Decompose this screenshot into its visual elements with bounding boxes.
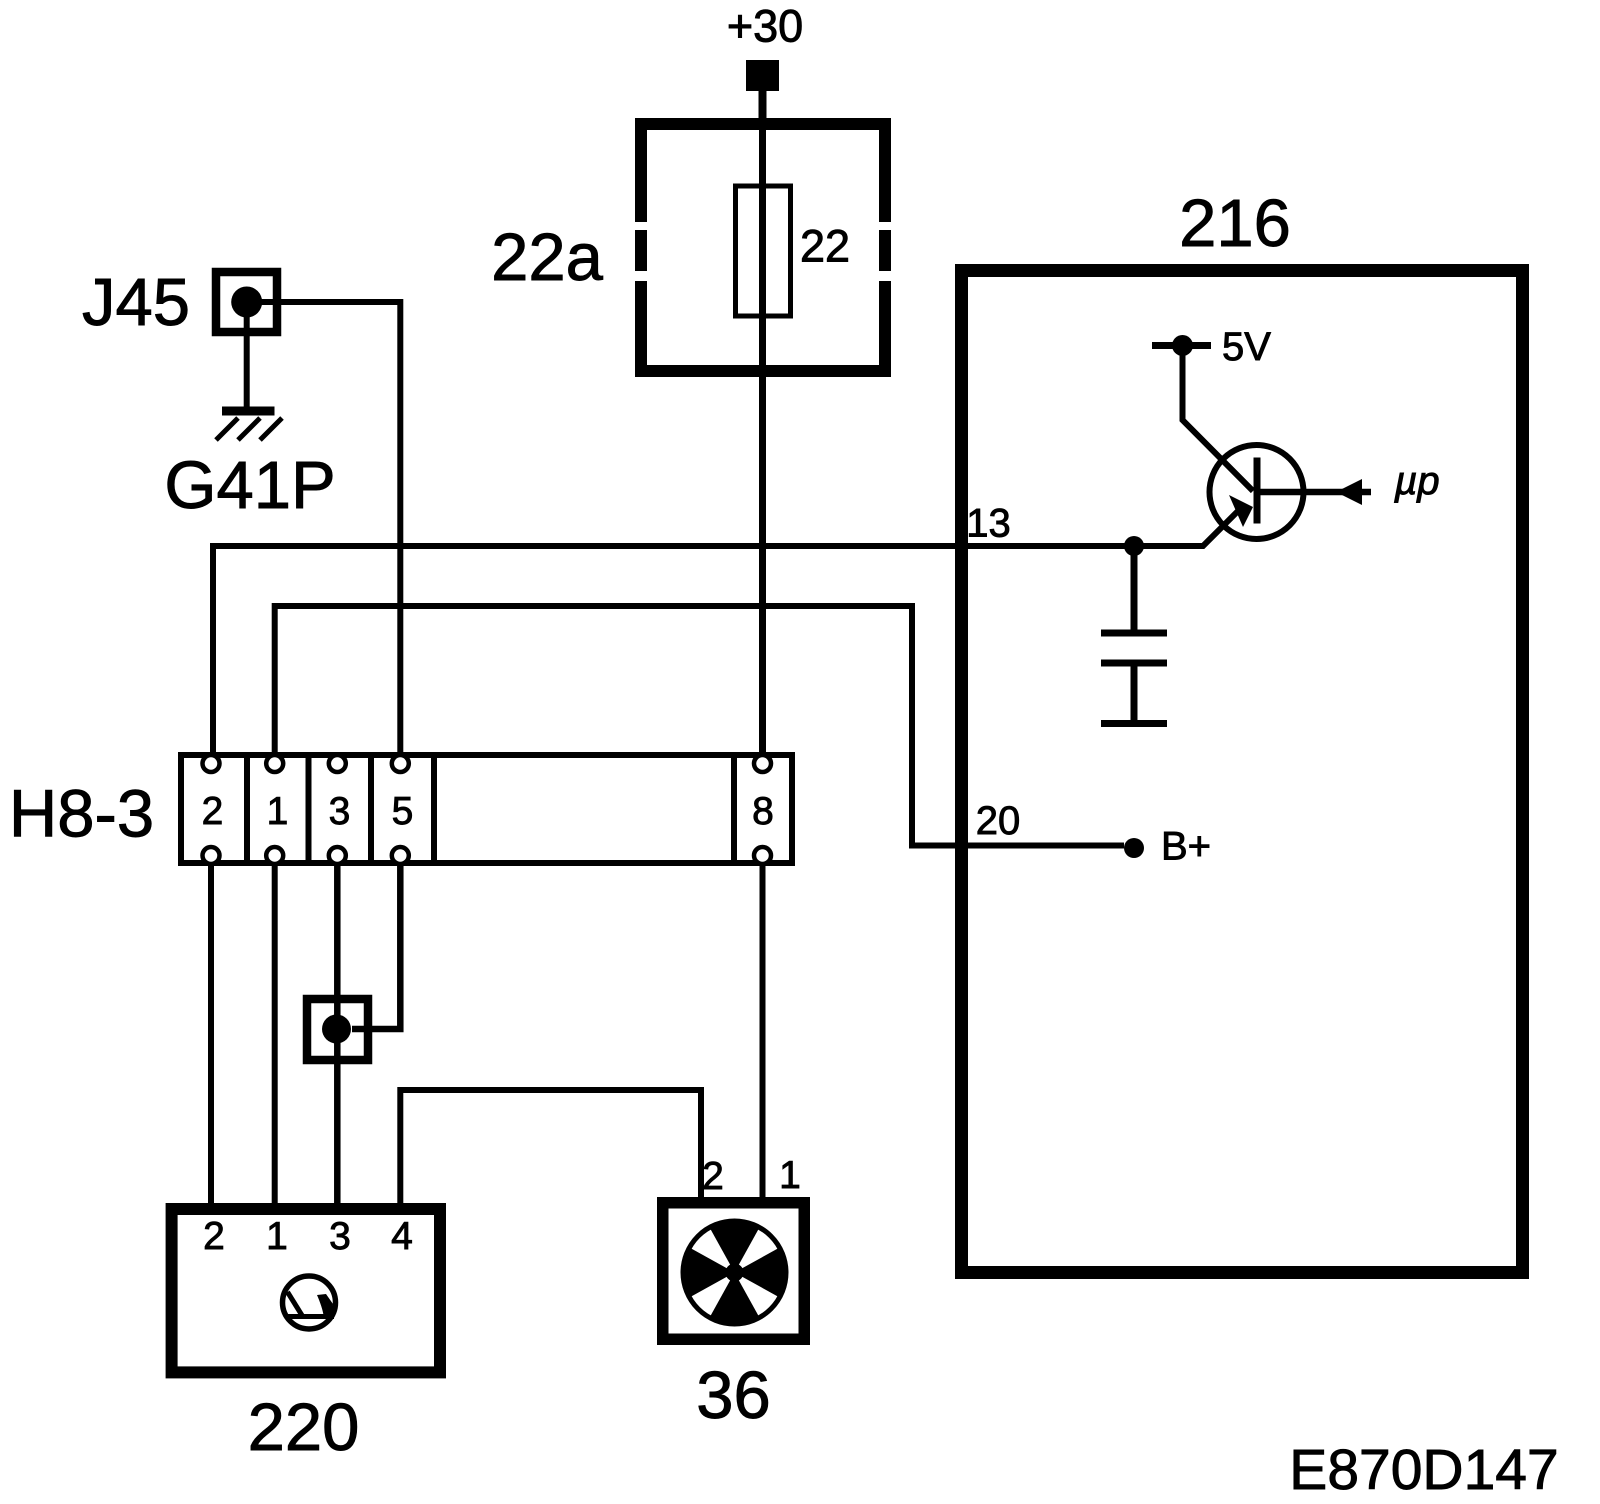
node 5V terminal (1152, 335, 1211, 356)
connector J45 contact dot (231, 287, 262, 318)
arrowhead toward transistor (1336, 479, 1362, 505)
fuse 22 element (736, 186, 791, 316)
svg-text:36: 36 (696, 1358, 771, 1433)
svg-text:1: 1 (266, 1215, 288, 1258)
svg-text:22a: 22a (491, 220, 604, 295)
connector J45 square (216, 272, 277, 332)
svg-text:22: 22 (800, 221, 850, 272)
splice connector square (307, 999, 368, 1060)
wire pin 13 to transistor emitter (213, 507, 1242, 754)
wire H8-3 pin 8 to fan 36 pin 1 (760, 866, 766, 1197)
svg-text:E870D147: E870D147 (1289, 1438, 1558, 1502)
wire H8-3 pin 3 to 220 pin 3 through splice (334, 866, 341, 1203)
wire H8-3 pin 5 to splice (352, 866, 400, 1029)
svg-text:8: 8 (752, 790, 774, 833)
svg-text:3: 3 (329, 790, 351, 833)
wire H8-3 pin 1 to 220 pin 1 (272, 866, 278, 1203)
svg-text:µp: µp (1393, 459, 1439, 503)
svg-text:J45: J45 (82, 265, 190, 340)
transistor emitter arrowhead (1229, 495, 1253, 527)
svg-text:5V: 5V (1222, 325, 1271, 369)
svg-text:20: 20 (976, 799, 1021, 843)
fuse holder 22a box (dashed border) (635, 118, 891, 377)
transistor output wire to microprocessor (1257, 489, 1371, 496)
fan symbol in 36 (683, 1221, 786, 1324)
svg-text:B+: B+ (1161, 825, 1211, 869)
svg-text:4: 4 (391, 1215, 413, 1258)
junction node on pin 13 wire (1124, 536, 1144, 556)
svg-text:3: 3 (329, 1215, 351, 1258)
wire H8-3 pin 1 to pin 20 / B+ (275, 606, 1124, 846)
splice contact dot (322, 1015, 351, 1044)
connector H8-3 strip (181, 752, 792, 866)
wire 5V to transistor (1183, 346, 1254, 492)
ground G41P symbol (216, 411, 282, 440)
svg-text:G41P: G41P (164, 448, 335, 523)
svg-text:5: 5 (392, 790, 414, 833)
connector H8-3 pin circles (203, 755, 772, 864)
wire H8-3 pin 2 to 220 pin 2 (208, 866, 214, 1203)
svg-text:+30: +30 (727, 1, 803, 52)
svg-text:H8-3: H8-3 (9, 777, 154, 852)
wire through fuse down to H8-3 pin 8 (759, 124, 766, 756)
wire 220 pin 4 to fan 36 pin 2 (400, 1090, 701, 1203)
wire +30 terminal to fuse box (759, 88, 767, 124)
transistor in 216 (1210, 445, 1304, 539)
wire J45 to ground (244, 302, 250, 407)
svg-text:1: 1 (779, 1154, 801, 1197)
svg-text:2: 2 (702, 1155, 724, 1198)
svg-text:216: 216 (1179, 186, 1291, 261)
svg-text:220: 220 (248, 1390, 360, 1465)
svg-text:2: 2 (203, 1215, 225, 1258)
pump 220 box (172, 1209, 440, 1372)
capacitor in 216 (1101, 546, 1167, 724)
svg-text:1: 1 (267, 790, 289, 833)
wire J45 to H8-3 pin 5 (253, 302, 400, 754)
node B+ terminal dot (1124, 838, 1144, 858)
ECU 216 box (962, 271, 1523, 1273)
node +30 terminal square (746, 60, 779, 91)
svg-text:2: 2 (202, 790, 224, 833)
pump symbol in 220 (283, 1276, 336, 1329)
svg-text:13: 13 (966, 502, 1011, 546)
fan 36 box (663, 1203, 805, 1340)
